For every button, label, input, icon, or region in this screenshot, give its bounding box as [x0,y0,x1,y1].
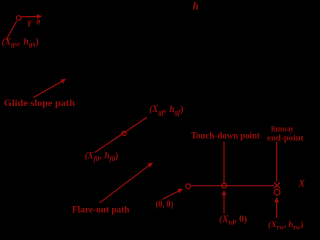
glide slope segment through capture point [6,21,16,40]
svg-text:Touch-down point: Touch-down point [191,130,260,140]
glide slope path leader arrow [34,79,66,97]
horizontal reference arrow [21,15,41,17]
origin marker [186,184,191,189]
svg-text:(0, 0): (0, 0) [156,199,174,210]
svg-text:γ: γ [28,18,32,28]
svg-text:h: h [193,1,199,12]
flare-out path leader arrow [100,163,153,203]
(0,0) leader arrow [163,189,183,199]
svg-text:θ: θ [36,17,40,26]
glide slope capture point marker [16,16,21,21]
svg-text:(Xf0, hf0): (Xf0, hf0) [85,151,119,163]
(X_td,0) leader arrow [223,191,225,214]
svg-text:Runway: Runway [271,125,293,134]
touch-down leader line [223,142,225,183]
glide slope point marker [122,131,126,135]
svg-text:end-point: end-point [267,133,304,142]
svg-text:(Xtd, 0): (Xtd, 0) [219,214,247,226]
svg-text:Glide slope path: Glide slope path [4,98,75,108]
svg-text:Flare-out path: Flare-out path [72,204,130,214]
svg-text:(Xrw, hrw): (Xrw, hrw) [268,219,303,230]
touch-down point marker [222,183,227,188]
svg-text:(Xgs, hgs): (Xgs, hgs) [2,36,39,48]
X axis [191,185,275,187]
runway end-point leader line [276,142,278,182]
runway end-point cross marker [274,182,280,188]
runway end-point circle marker [274,189,280,195]
(X_rw,h_rw) leader arrow [276,198,278,218]
svg-text:X: X [298,180,306,190]
svg-text:(Xgf, hgf): (Xgf, hgf) [149,104,183,116]
glide slope path line [95,117,147,152]
